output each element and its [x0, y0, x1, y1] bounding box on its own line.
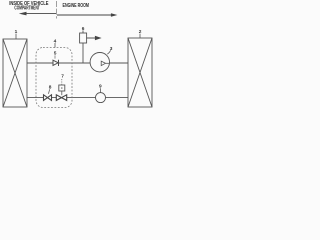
heat exchanger 2 (outdoor)	[128, 38, 152, 107]
heat exchanger 1 (indoor)	[3, 39, 27, 107]
wire lower pipe	[27, 97, 96, 99]
svg-text:3: 3	[110, 46, 113, 52]
actuator of valve 7	[59, 85, 65, 95]
check valve 5	[53, 60, 59, 66]
solenoid valve 7 (right bowtie)	[56, 95, 66, 101]
arrow to engine room (right)	[57, 13, 117, 16]
wire lower pipe right	[105, 97, 128, 99]
svg-text:COMPARTMENT: COMPARTMENT	[14, 6, 39, 12]
receiver 6 (small rectangle)	[80, 33, 87, 43]
valve unit dashed box 4	[36, 48, 72, 108]
label INSIDE OF VEHICLE COMPARTMENT	[9, 1, 49, 12]
pump 9 (small circle)	[96, 93, 106, 103]
compressor 3	[90, 53, 109, 72]
label 2	[139, 29, 142, 38]
partition dashed line	[56, 1, 58, 19]
label 8	[49, 85, 52, 94]
wire upper pipe	[27, 62, 91, 64]
wire branch to receiver	[82, 43, 84, 63]
label 1	[15, 29, 18, 39]
label 6	[82, 26, 85, 33]
label 5	[54, 50, 57, 58]
svg-text:ENGINE ROOM: ENGINE ROOM	[63, 3, 90, 9]
label 9	[99, 84, 102, 93]
label 3	[107, 46, 113, 54]
svg-text:7: 7	[61, 74, 64, 80]
label 4 with arrow	[54, 39, 57, 48]
arrow to vehicle compartment (left)	[19, 12, 56, 16]
arrow from receiver	[87, 36, 102, 41]
shutoff valve 8 (left bowtie)	[44, 95, 52, 101]
wire upper pipe compressor to outdoor HX	[109, 62, 128, 64]
label 7	[61, 74, 64, 86]
